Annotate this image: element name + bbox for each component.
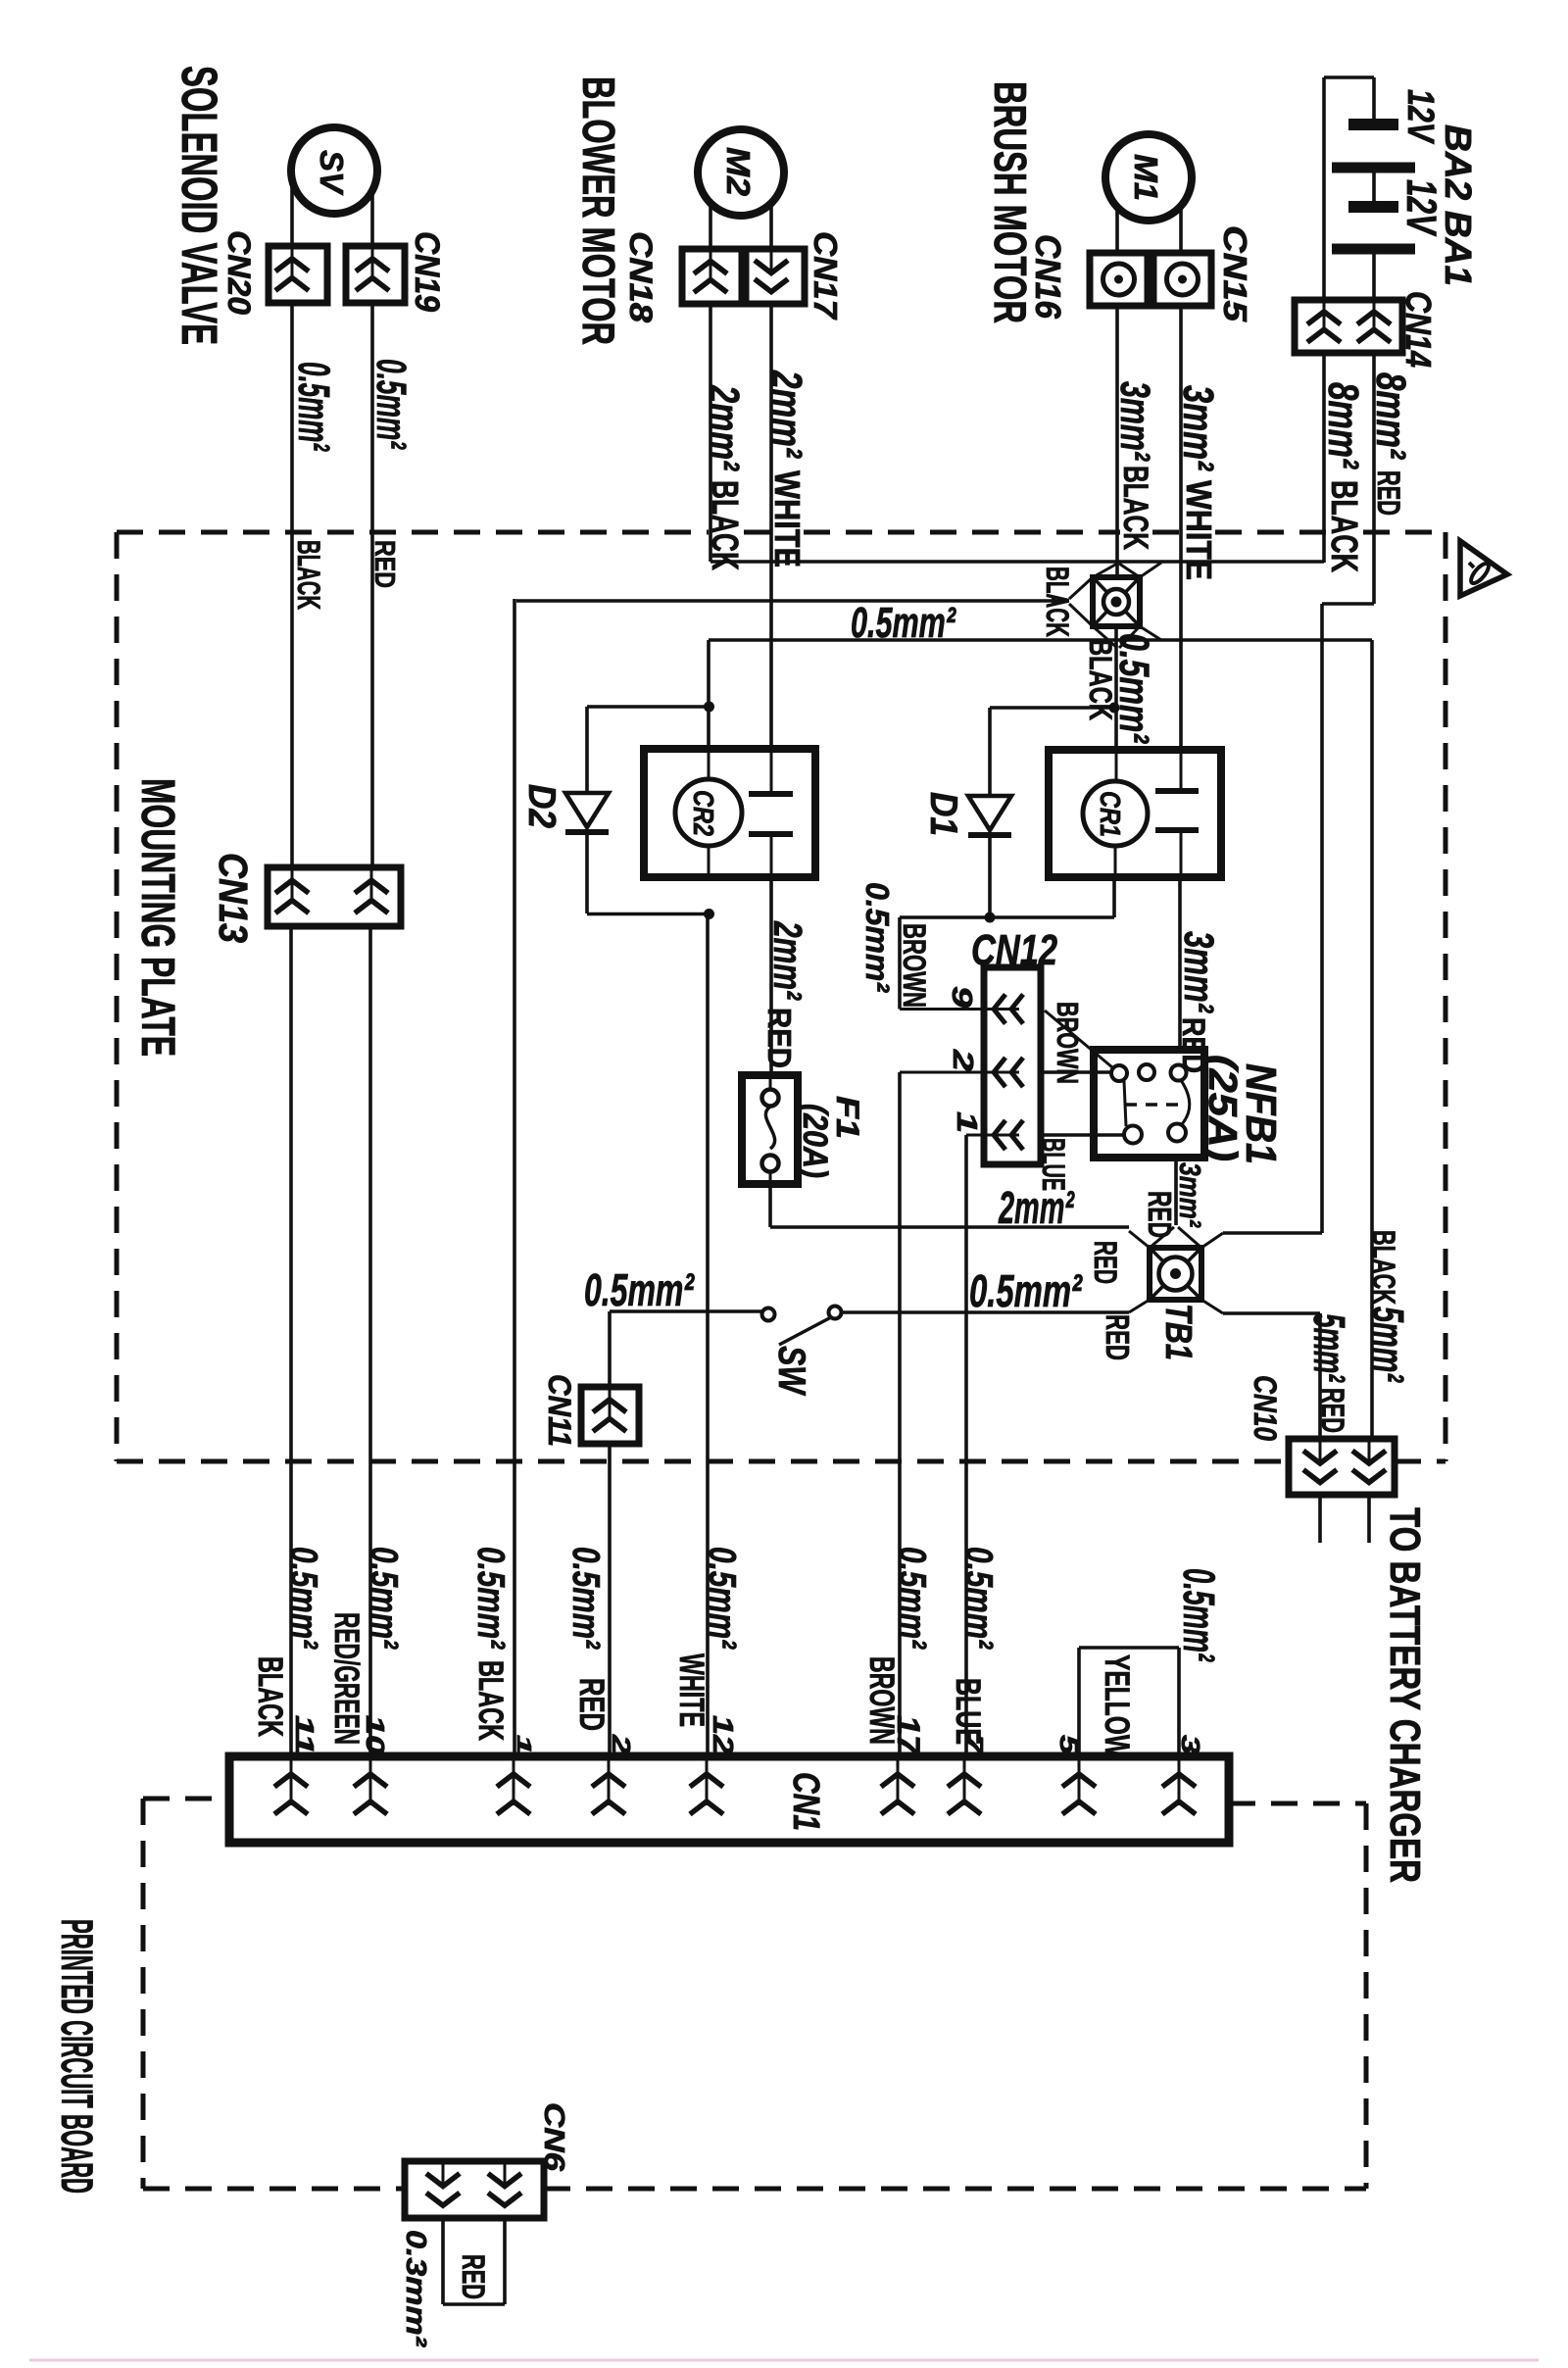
svg-text:0.5mm²: 0.5mm² [469, 1547, 512, 1650]
NFB1 terminal bottom-left [1124, 1126, 1142, 1144]
TB1 flare right (two wires) [1201, 1233, 1223, 1248]
connector CN15 (ring terminal) [1153, 253, 1211, 306]
wire TB1 right-top to battery red [1223, 1231, 1322, 1235]
wire junction to CN16 (M1 black) [1115, 306, 1119, 577]
wire CN11 to CN1 pin 2 [608, 1444, 612, 1756]
svg-text:0.5mm²: 0.5mm² [701, 1547, 743, 1650]
svg-text:RED: RED [1315, 1388, 1350, 1433]
svg-text:9: 9 [946, 986, 977, 1009]
battery top joint wire [1324, 75, 1374, 79]
svg-text:WHITE: WHITE [767, 470, 808, 567]
relay CR2 contact [770, 749, 773, 794]
svg-text:5mm²: 5mm² [1304, 1313, 1354, 1383]
wire CR1 coil bottom horizontal (to D1, CN12 pin9) [900, 915, 1114, 919]
connector CN11 [581, 1387, 639, 1444]
svg-text:(25A): (25A) [1200, 1055, 1246, 1161]
warning triangle [1460, 541, 1507, 596]
wire CN12 pin2 to NFB1 (horizontal) [1041, 1070, 1111, 1074]
svg-text:BLACK: BLACK [1040, 567, 1075, 637]
battery BA1 (12V) [1372, 172, 1376, 203]
relay CR1 box [1049, 750, 1221, 877]
NFB1 terminal top-middle [1139, 1064, 1154, 1080]
wire D2 top branch [587, 705, 709, 709]
red jumper loop on CN6 [441, 2218, 445, 2304]
svg-text:RED/GREEN: RED/GREEN [327, 1612, 366, 1745]
NFB1 main contact arc [1181, 1080, 1190, 1124]
wire 0.5mm black branch (horizontal to junction) [516, 599, 1069, 603]
svg-text:CN11: CN11 [542, 1374, 577, 1447]
relay CR2 coil [708, 749, 710, 779]
junction flare top [1093, 564, 1117, 577]
relay CR1 contact [1180, 750, 1183, 791]
blower motor M2 [698, 129, 784, 216]
svg-text:12V: 12V [1399, 89, 1441, 144]
svg-text:PRINTED CIRCUIT BOARD: PRINTED CIRCUIT BOARD [52, 1919, 102, 2194]
svg-text:TB1: TB1 [1157, 1304, 1199, 1360]
wire battery positive to CN14 [1372, 253, 1376, 300]
diode D2 [585, 707, 589, 793]
junction flare right (to two wires) [1140, 563, 1161, 577]
svg-text:BROWN: BROWN [862, 1656, 901, 1745]
svg-text:BLACK: BLACK [471, 1660, 510, 1741]
svg-text:TO BATTERY CHARGER: TO BATTERY CHARGER [1381, 1507, 1428, 1883]
wire SV red lead [370, 191, 374, 246]
svg-text:CR2: CR2 [687, 790, 718, 836]
mounting plate outline left edge (dashed) [115, 532, 120, 1461]
diode D1 [988, 708, 992, 796]
CN1 pin 10 [369, 1756, 372, 1805]
svg-text:2: 2 [607, 1734, 636, 1755]
svg-text:1: 1 [513, 1735, 534, 1754]
TB1 flare left (two wires) [1129, 1231, 1150, 1248]
switch SW [762, 1308, 775, 1321]
wire M2 black to battery black (horizontal) [710, 560, 1324, 564]
wire CR2 coil top (vertical) [707, 640, 710, 749]
breaker NFB1 box [1094, 1050, 1204, 1158]
svg-text:BLACK: BLACK [1116, 466, 1154, 550]
brush motor M1 [1105, 134, 1192, 221]
svg-text:2mm²: 2mm² [700, 384, 747, 471]
svg-text:0.5mm²: 0.5mm² [851, 600, 956, 647]
NFB1 trip bar (dashed) [1125, 1103, 1178, 1107]
wire M1 white lead [1179, 207, 1183, 253]
svg-text:RED: RED [1099, 1314, 1135, 1360]
svg-text:WHITE: WHITE [672, 1653, 710, 1727]
svg-text:D1: D1 [922, 792, 964, 836]
CN1 pin 17 [897, 1756, 900, 1805]
svg-text:RED: RED [456, 2254, 491, 2299]
svg-text:0.5mm²: 0.5mm² [1111, 633, 1157, 744]
yellow jumper loop pins 5-3 [1077, 1648, 1081, 1756]
wire F1 to TB1 2mm red [768, 1184, 772, 1227]
CN12 pin 2 [900, 1071, 1019, 1074]
svg-text:MOUNTING PLATE: MOUNTING PLATE [131, 778, 183, 1057]
svg-text:CN18: CN18 [623, 231, 659, 322]
wire CR2 contact to fuse F1 [769, 877, 773, 1075]
wire CN12 pin9 to NFB1 (diagonal) [1045, 1011, 1112, 1067]
terminal TB1 [1150, 1248, 1201, 1300]
junction flare left [1069, 577, 1093, 599]
svg-text:3mm²: 3mm² [1176, 931, 1222, 1013]
svg-text:5mm²: 5mm² [1363, 1307, 1413, 1383]
svg-text:M2: M2 [719, 147, 756, 196]
wire M1 black lead [1115, 208, 1119, 253]
svg-text:RED: RED [760, 1008, 797, 1068]
svg-text:BLUE: BLUE [949, 1678, 987, 1745]
svg-text:8mm²: 8mm² [1319, 382, 1366, 469]
svg-text:WHITE: WHITE [1179, 480, 1219, 580]
connector CN19 [346, 246, 405, 303]
svg-text:0.5mm²: 0.5mm² [564, 1547, 607, 1650]
svg-text:3mm²: 3mm² [1173, 1162, 1206, 1228]
wire D2 bottom branch [587, 913, 709, 916]
svg-text:F1: F1 [830, 1096, 865, 1139]
CN1 pin 12 [706, 1756, 709, 1805]
svg-text:0.5mm²: 0.5mm² [969, 1265, 1083, 1316]
wire 0.5mm black vertical to CN1 pin 1 [513, 599, 516, 1756]
svg-text:CN12: CN12 [971, 927, 1057, 974]
relay CR2 box [644, 749, 815, 877]
wire CR2 coil bottom to CN1 pin 12 [706, 914, 710, 1757]
wire CN12 pin1 to NFB1 bottom-left (BLUE) [1041, 1133, 1124, 1137]
svg-text:BLACK: BLACK [291, 540, 326, 610]
wire pin9 riser [898, 917, 902, 1010]
wire switch line left (0.5mm) [610, 1309, 761, 1313]
TB1 flare top [1150, 1227, 1174, 1248]
svg-text:RED: RED [572, 1678, 611, 1731]
solenoid valve SV [291, 127, 377, 214]
svg-text:D2: D2 [520, 784, 563, 828]
wire CR2 contact to CN17 (white) [769, 304, 773, 749]
svg-text:SOLENOID VALVE: SOLENOID VALVE [171, 66, 227, 345]
CN12 pin 1 [966, 1134, 1019, 1137]
CN1 pin 7 [963, 1756, 966, 1805]
svg-text:M1: M1 [1127, 154, 1163, 201]
svg-text:RED: RED [1088, 1241, 1123, 1284]
svg-text:0.5mm²: 0.5mm² [584, 1264, 695, 1315]
wire TB1 right-bottom to CN10 red [1223, 1311, 1320, 1315]
wire M2 white lead [769, 204, 773, 249]
wire battery red jog at CN14 [1372, 353, 1376, 604]
svg-text:0.5mm²: 0.5mm² [891, 1547, 933, 1650]
svg-text:BROWN: BROWN [897, 923, 932, 1008]
junction block (negative bus) [1093, 577, 1140, 626]
wire switch to TB1 (0.5mm red) [842, 1310, 1129, 1314]
svg-text:CN1: CN1 [785, 1772, 826, 1831]
wire CN10 to charger (red) [1318, 1495, 1322, 1543]
connector CN10 [1289, 1439, 1395, 1495]
connector CN13 [268, 867, 401, 926]
wire CR1 contact to CN15 (white) [1179, 306, 1183, 750]
connector CN1 bar [229, 1756, 1229, 1843]
svg-text:YELLOW: YELLOW [1098, 1654, 1136, 1757]
wire CR1 contact to NFB1 3mm red [1178, 877, 1182, 1050]
junction dot D1 bottom [985, 913, 996, 923]
relay CR1 coil [1115, 750, 1118, 781]
svg-text:BLACK: BLACK [1366, 1230, 1401, 1305]
fuse F1 box [742, 1075, 798, 1184]
connector CN14 [1295, 300, 1402, 353]
CN1 pin 3 [1178, 1756, 1181, 1805]
connector CN17 [746, 249, 805, 304]
svg-text:0.5mm²: 0.5mm² [1174, 1568, 1224, 1662]
NFB1 left pole link [1124, 1081, 1126, 1126]
CN1 pin 5 [1078, 1756, 1081, 1805]
svg-text:2mm²: 2mm² [998, 1182, 1075, 1233]
wire battery red down to TB1 [1320, 604, 1324, 1233]
junction flare bottom [1093, 626, 1117, 648]
svg-text:0.3mm²: 0.3mm² [400, 2230, 431, 2348]
svg-text:2mm²: 2mm² [765, 920, 810, 1001]
svg-text:2: 2 [947, 1049, 978, 1071]
wire CN10-black drop [1370, 640, 1374, 1439]
wire SV red to CN1 (through CN13) [370, 303, 374, 867]
svg-text:CN16: CN16 [1028, 234, 1068, 320]
connector CN6 [405, 2161, 544, 2218]
mounting plate outline top edge (dashed) [117, 530, 709, 535]
wire SV black to CN1 (through CN13) [290, 303, 294, 867]
svg-text:11: 11 [290, 1715, 319, 1754]
wire M2 black lead [709, 204, 712, 249]
svg-text:SW: SW [770, 1346, 812, 1396]
svg-text:SV: SV [313, 150, 349, 196]
junction dot CR1/D1 top [1109, 703, 1120, 714]
wire battery black drop to bus [1322, 353, 1326, 563]
svg-text:RED: RED [1371, 470, 1406, 516]
svg-text:BLOWER MOTOR: BLOWER MOTOR [573, 76, 624, 345]
svg-text:CN14: CN14 [1398, 291, 1439, 368]
wire 0.5mm black CR2 coil to CN10-black (horizontal) [709, 638, 1372, 642]
svg-text:CN10: CN10 [1248, 1375, 1283, 1441]
wire CN12 pin2 to CN1 pin 17 [898, 1072, 902, 1756]
svg-text:0.5mm²: 0.5mm² [957, 1547, 1000, 1650]
wire battery negative rail 8mm BLACK [1322, 77, 1326, 300]
wire NFB1 to TB1 3mm red [1174, 1158, 1178, 1225]
svg-text:0.5mm²: 0.5mm² [363, 1547, 405, 1650]
NFB1 terminal top-left [1111, 1065, 1127, 1081]
CN1 pin 1 [513, 1756, 515, 1805]
fuse F1 element [769, 1075, 772, 1090]
wire junction down to CR1 coil [1114, 626, 1118, 750]
printed circuit board outline (dashed) [141, 1799, 146, 2189]
wire CN12 pin1 to CN1 pin 7 [964, 1135, 968, 1756]
svg-text:CR1: CR1 [1094, 791, 1125, 837]
wire SV black lead [290, 180, 294, 246]
connector CN16 (ring terminal) [1090, 253, 1148, 306]
wire D1 top branch [990, 706, 1114, 710]
svg-text:(20A): (20A) [796, 1104, 834, 1178]
connector CN20 [269, 246, 327, 303]
CN12 pin 9 [900, 1008, 1019, 1011]
svg-text:CN19: CN19 [408, 231, 446, 313]
svg-text:BLACK: BLACK [251, 1656, 289, 1737]
mounting plate outline right edge (dashed) [1444, 532, 1448, 1461]
wire CR1 coil bottom [1112, 877, 1116, 917]
connector CN18 [682, 249, 742, 304]
svg-text:BA2 BA1: BA2 BA1 [1437, 124, 1478, 286]
scanner artifact line [29, 2359, 1539, 2362]
svg-text:0.5mm²: 0.5mm² [368, 359, 415, 450]
wire CN10 to charger (black) [1367, 1495, 1371, 1543]
mounting plate outline bottom edge (dashed) [117, 1459, 1289, 1464]
NFB1 terminal bottom-right [1168, 1124, 1186, 1142]
svg-text:CN20: CN20 [221, 230, 257, 315]
svg-text:0.5mm²: 0.5mm² [282, 1547, 324, 1650]
svg-text:3mm²: 3mm² [1112, 381, 1158, 462]
svg-text:CN6: CN6 [538, 2102, 569, 2172]
battery BA2 (12V) [1372, 77, 1376, 121]
svg-text:0.5mm²: 0.5mm² [858, 882, 895, 993]
svg-text:CN17: CN17 [807, 231, 843, 320]
NFB1 terminal top-right [1171, 1065, 1187, 1081]
junction dot CR2/D2 bottom [704, 909, 714, 919]
svg-text:CN15: CN15 [1216, 225, 1252, 321]
svg-text:CN13: CN13 [211, 853, 256, 943]
connector CN12 box [984, 967, 1041, 1164]
CN1 pin 11 [290, 1756, 293, 1805]
wire M2 black CN18 to bus corner [709, 304, 712, 562]
svg-text:BLACK: BLACK [1323, 480, 1364, 572]
svg-text:1: 1 [951, 1111, 982, 1133]
CN1 pin 2 [608, 1756, 611, 1805]
svg-text:0.5mm²: 0.5mm² [289, 362, 339, 452]
junction dot CR2/D2 top [704, 702, 714, 713]
